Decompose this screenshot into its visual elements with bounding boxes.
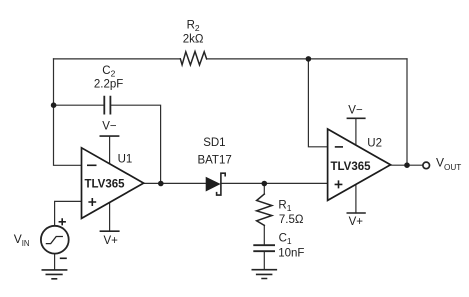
svg-text:V+: V+ [349, 216, 364, 228]
svg-text:2.2pF: 2.2pF [94, 79, 123, 91]
svg-text:2kΩ: 2kΩ [183, 34, 204, 46]
svg-text:V+: V+ [104, 235, 119, 247]
svg-text:V−: V− [102, 121, 117, 133]
svg-text:BAT17: BAT17 [197, 154, 231, 166]
svg-text:7.5Ω: 7.5Ω [279, 214, 304, 226]
svg-text:TLV365: TLV365 [330, 161, 371, 173]
svg-text:SD1: SD1 [203, 137, 225, 149]
svg-text:U2: U2 [367, 137, 382, 149]
svg-text:TLV365: TLV365 [84, 179, 125, 191]
svg-text:10nF: 10nF [278, 248, 304, 260]
svg-text:U1: U1 [118, 153, 133, 165]
svg-text:V−: V− [348, 105, 363, 117]
